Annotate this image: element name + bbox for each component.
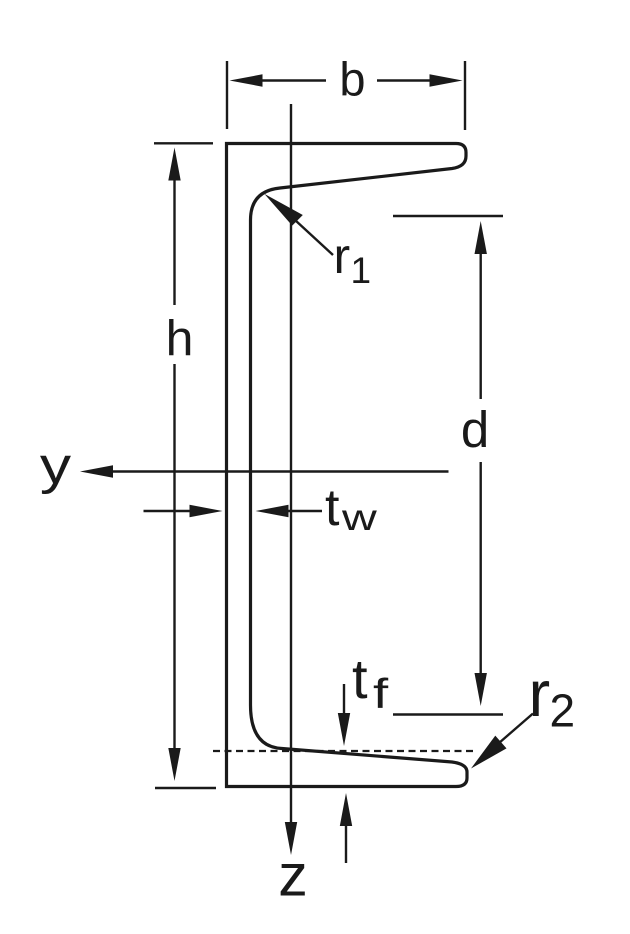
leader r1 bbox=[295, 220, 333, 255]
dimension d bbox=[393, 216, 503, 715]
svg-text:t: t bbox=[352, 647, 368, 710]
svg-text:z: z bbox=[278, 843, 308, 909]
svg-text:t: t bbox=[325, 479, 340, 537]
svg-text:r: r bbox=[529, 657, 551, 730]
svg-text:y: y bbox=[40, 437, 72, 495]
channel section outline bbox=[227, 144, 468, 787]
svg-text:f: f bbox=[373, 671, 389, 718]
dimension h bbox=[154, 143, 216, 788]
svg-text:w: w bbox=[341, 497, 378, 538]
dashed line bbox=[213, 750, 477, 752]
svg-text:d: d bbox=[461, 401, 489, 458]
dimension t_f bbox=[343, 684, 345, 715]
svg-text:r: r bbox=[334, 228, 351, 284]
leader r2 bbox=[499, 714, 533, 744]
svg-text:b: b bbox=[339, 53, 365, 106]
svg-text:1: 1 bbox=[351, 250, 372, 291]
z axis bbox=[290, 104, 292, 823]
svg-text:2: 2 bbox=[550, 685, 576, 737]
y axis bbox=[111, 470, 449, 472]
svg-text:h: h bbox=[166, 311, 194, 367]
dimension t_w bbox=[144, 510, 323, 512]
dimension b bbox=[227, 61, 465, 130]
